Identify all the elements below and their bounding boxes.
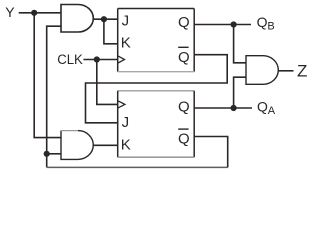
wire Q of U1 output [194,24,251,26]
svg-text:B: B [267,21,274,33]
svg-text:Q: Q [257,98,268,114]
wire AND2 output to K of U2 [93,144,117,146]
svg-text:Q: Q [178,14,190,31]
U1 pin label Q-bar [178,47,190,66]
svg-text:J: J [122,114,130,131]
wire CLK to FF1 clock [83,59,117,61]
svg-text:K: K [121,35,131,52]
svg-text:CLK: CLK [57,52,83,67]
U2 clock triangle [118,101,125,108]
junction dot feedback to AND2 bottom input [44,151,50,157]
wire CLK branch to FF2 clock [97,60,118,105]
wire Y branch down to AND2 top input [34,13,61,138]
U2 pin label Q-bar [178,129,190,148]
svg-text:K: K [121,137,131,154]
wire QA branch up to AND3 bottom input [234,77,246,108]
wire Y input [19,12,61,14]
svg-text:Q: Q [178,131,190,148]
AND gate A1 (top-left) [61,5,93,33]
svg-text:A: A [268,105,276,117]
svg-text:Q: Q [178,49,190,66]
wire AND2 bottom input stub [47,153,61,155]
wire QB branch down to AND3 top input [234,25,246,63]
flip-flop U1 (top JK) body [118,9,195,72]
junction dot on Y wire [31,10,37,16]
junction dot QB [231,21,237,27]
junction dot AND1 output [101,16,107,22]
wire AND1 output to J of FF1 [93,18,117,20]
svg-text:Q: Q [178,99,190,116]
AND gate A2 (bottom-left) [61,131,93,160]
flip-flop U2 (bottom JK) body [118,91,195,157]
wire Q of U2 output [194,107,252,109]
wire Z output [278,70,293,72]
wire Q̄ of U1 down between flip-flops to J of U2 [86,55,228,123]
wire feedback from Q̄A vertical riser to AND1 bottom input [47,26,61,167]
svg-text:Z: Z [297,61,307,80]
AND gate A3 (output Z) [246,56,278,85]
wire AND1 output branch to K of FF1 [104,19,118,44]
wire Q̄A feedback right riser [194,137,228,168]
svg-text:J: J [122,13,130,30]
svg-text:Y: Y [5,4,15,20]
U1 clock triangle [118,56,125,63]
svg-text:Q: Q [257,14,268,30]
junction dot QA [231,105,237,111]
node QA label [257,98,276,117]
wire Q̄A feedback bottom run [47,166,228,168]
junction dot CLK [94,56,100,62]
node QB label [257,14,275,33]
